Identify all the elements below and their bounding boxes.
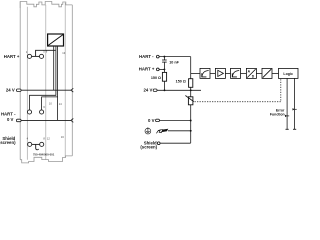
block galvanic isolation — [262, 68, 272, 78]
ribbon wire 1 — [53, 46, 55, 90]
terminal circle 2 (HART-) — [27, 110, 31, 114]
module inner vertical 1 — [26, 7, 28, 160]
wire shield terminal to node — [160, 142, 191, 144]
0V left plug contact — [17, 119, 22, 122]
terminal circle 8 (shield) — [40, 142, 44, 146]
capacitor C1 10 nF — [163, 57, 165, 60]
wire 24V power rail across module — [21, 89, 71, 91]
module inner vertical 2 — [45, 5, 47, 160]
svg-text:24 V: 24 V — [6, 88, 15, 93]
arrow into data line 2 — [293, 108, 295, 110]
node HART+ cap junction — [163, 68, 165, 70]
svg-text:0 V: 0 V — [7, 117, 14, 122]
svg-text:10 nF: 10 nF — [169, 60, 179, 64]
wire data line 1 — [286, 78, 288, 129]
block amplifier — [215, 68, 225, 78]
wire 0V rail (schematic) — [159, 120, 190, 122]
node R1/24V junction — [164, 89, 166, 91]
ribbon wire 4 — [57, 97, 59, 121]
wire b2-b3 — [225, 72, 230, 74]
ribbon wire 3 — [42, 46, 58, 110]
wire 0V power rail across module — [21, 119, 71, 121]
svg-text:0 V: 0 V — [148, 118, 155, 123]
block filter 2 — [231, 68, 241, 78]
svg-text:HART +: HART + — [4, 54, 20, 59]
resistor R1 150 Ohm — [163, 69, 165, 72]
svg-text:(screen): (screen) — [0, 140, 16, 145]
wire data line 2 — [294, 78, 296, 129]
0V plug contact (schematic) — [156, 119, 160, 121]
svg-text:Function: Function — [270, 112, 285, 116]
node HART- cap junction — [163, 56, 165, 58]
block Logic U1 — [279, 68, 299, 78]
module inner vertical 3 — [64, 3, 66, 158]
wire b5-logic — [272, 72, 279, 74]
svg-text:150 Ω: 150 Ω — [176, 80, 186, 84]
module top profile — [20, 2, 72, 9]
terminal circle 5 (HART+) — [39, 54, 43, 58]
wire rail to shield node — [168, 130, 191, 132]
svg-text:750-484/000-001: 750-484/000-001 — [33, 152, 55, 156]
ribbon wire 2 — [30, 46, 56, 110]
node R2/24V junction — [190, 89, 192, 91]
wire b4-b5 — [256, 72, 262, 74]
terminal circle shield — [157, 142, 160, 145]
svg-text:HART -: HART - — [139, 54, 154, 59]
svg-text:(screen): (screen) — [140, 145, 157, 150]
svg-text:HART -: HART - — [1, 112, 16, 117]
wire HART+ contact link — [32, 55, 40, 57]
24V right plug contact — [71, 88, 73, 92]
24V plug contact (schematic) — [153, 89, 157, 91]
node shield junction — [190, 130, 192, 132]
svg-text:Logic: Logic — [283, 72, 293, 76]
earth symbol in circle — [145, 127, 151, 134]
module bottom profile — [20, 156, 72, 163]
node 0V junction — [190, 120, 192, 122]
terminal circle 1 (HART+) — [27, 54, 31, 58]
terminal circle HART- — [156, 55, 159, 58]
transistor Q1 controlled load — [190, 90, 192, 97]
dashed control line to Logic — [195, 78, 281, 101]
block filter 1 — [200, 68, 210, 78]
terminal circle 4 (shield) — [28, 142, 32, 146]
wire shield hook to rail — [36, 144, 39, 149]
wire chain input — [191, 72, 200, 74]
electronics box with diagonal — [48, 34, 64, 46]
wire 24V rail (schematic) — [157, 89, 201, 91]
terminal circle HART+ — [156, 68, 159, 71]
svg-text:150 Ω: 150 Ω — [151, 76, 161, 80]
24V left plug contact — [17, 89, 22, 92]
svg-text:HART +: HART + — [139, 67, 155, 72]
0V right plug contact — [71, 119, 73, 123]
wire b1-b2 — [210, 72, 215, 74]
svg-text:24 V: 24 V — [144, 88, 153, 93]
wire HART- to corner — [159, 56, 191, 58]
block A/D converter — [246, 68, 256, 78]
wire shield contact link — [32, 143, 40, 145]
wire HART+ to electronics — [36, 50, 56, 56]
wire b3-b4 — [241, 72, 247, 74]
carrier rail icon — [156, 129, 168, 134]
module right edge — [71, 5, 73, 156]
module left edge — [19, 1, 21, 159]
arrow into data line 1 — [285, 115, 287, 117]
resistor R2 150 Ohm — [190, 57, 192, 79]
wire HART+ to junction — [159, 68, 164, 70]
terminal circle 6 (HART-) — [40, 110, 44, 114]
